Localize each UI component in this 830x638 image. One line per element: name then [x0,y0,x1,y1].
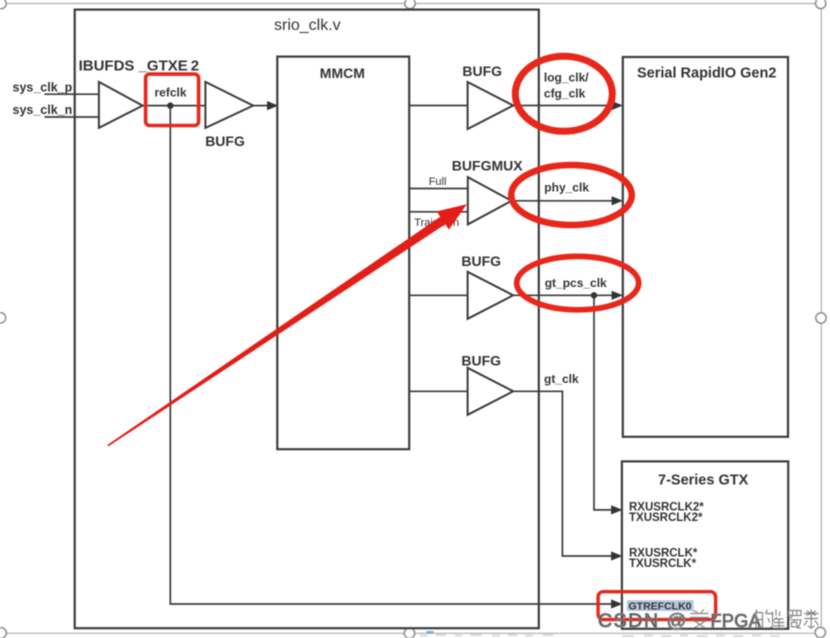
wire ibufds output to BUFG [143,105,206,107]
svg-text:CSDN @: CSDN @ [598,610,688,632]
svg-text:BUFG: BUFG [461,352,501,368]
block MMCM [277,57,409,450]
annotation red box around GTREFCLK0 [598,592,716,620]
wire gt_pcs_clk down to GTX RXUSRCLK2* [594,295,612,510]
svg-text:refclk: refclk [155,86,187,100]
selection handle bottom-middle [404,628,414,638]
svg-text:Full: Full [429,176,447,188]
watermark faint second row [420,635,780,636]
annotation red ellipse around log_clk/cfg_clk [515,56,612,131]
svg-text:MMCM: MMCM [320,65,365,81]
svg-text:gt_pcs_clk: gt_pcs_clk [545,276,607,290]
selection handle top-right [816,0,826,9]
svg-text:Serial RapidIO Gen2: Serial RapidIO Gen2 [637,66,776,82]
svg-text:gt_clk: gt_clk [544,372,579,386]
wire MMCM to BUFG top [409,105,467,107]
buffer IBUFDS_GTXE2 [99,82,143,128]
svg-text:FPGA: FPGA [711,611,762,631]
watermark CSDN text [598,610,761,632]
arrowhead gt_pcs_clk into GTX [611,505,622,514]
module box srio_clk.v [75,10,539,629]
wire BUFG to MMCM [253,105,269,107]
annotation red ellipse around phy_clk [511,165,632,225]
svg-text:BUFG: BUFG [462,63,502,79]
highlight GTREFCLK0 [627,600,694,611]
wire refclk down and right to GTREFCLK0 [170,106,612,604]
selection handle bottom-left [0,628,6,638]
wire gt_pcs_clk [513,294,612,296]
buffer BUFG (input side) [205,82,253,128]
svg-text:TXUSRCLK2*: TXUSRCLK2* [629,512,703,524]
wire MMCM to BUFG third [409,294,467,296]
svg-text:cfg_clk: cfg_clk [544,87,586,101]
watermark CJK glyph ai [690,610,709,629]
block Serial RapidIO Gen2 [623,57,788,437]
svg-text:BUFG: BUFG [205,133,245,149]
svg-text:srio_clk.v: srio_clk.v [274,17,341,34]
arrowhead refclk into GTREFCLK0 [611,599,622,608]
svg-text:7-Series GTX: 7-Series GTX [658,473,749,489]
wire sys_clk_n [45,116,100,118]
svg-text:TXUSRCLK*: TXUSRCLK* [629,558,697,570]
watermark CJK glyph de [755,610,773,628]
annotation red ellipse around gt_pcs_clk [517,256,639,309]
svg-text:BUFGMUX: BUFGMUX [452,158,523,174]
watermark blue mark [427,631,434,634]
svg-text:log_clk/: log_clk/ [544,71,589,85]
wire phy_clk [512,200,613,202]
buffer BUFG top (log_clk) [468,82,514,129]
buffer BUFG fourth (gt_clk) [468,368,514,415]
arrowhead phy_clk into Serial RapidIO [612,196,623,205]
svg-text:IBUFDS _GTXE 2: IBUFDS _GTXE 2 [79,57,200,74]
wire log_clk/cfg_clk [513,105,612,107]
node refclk junction [167,102,173,108]
annotation red box around refclk [146,74,199,125]
block 7-Series GTX [622,461,788,628]
arrowhead log_clk into Serial RapidIO [612,101,623,110]
buffer BUFG third (gt_pcs_clk) [468,272,514,319]
buffer BUFGMUX [468,177,512,224]
selection handle top-left [0,0,6,9]
svg-text:sys_clk_p: sys_clk_p [13,80,73,94]
svg-text:BUFG: BUFG [461,253,501,269]
wire gt_clk horizontal [513,391,612,556]
selection handle left-middle [0,313,6,323]
watermark CJK glyph cui [773,610,786,629]
svg-text:phy_clk: phy_clk [544,181,589,195]
arrowhead gt_pcs_clk into Serial RapidIO [612,291,623,300]
svg-text:sys_clk_n: sys_clk_n [13,103,73,117]
watermark CJK glyph shu [789,611,802,629]
selection handle bottom-right [815,627,825,637]
wire sys_clk_p [45,93,100,95]
wire MMCM to BUFG fourth [409,390,467,392]
annotation red arrow to BUFGMUX [107,204,467,446]
wire Full [409,188,468,190]
selection handle right-middle [816,313,826,323]
arrowhead into MMCM [267,101,278,110]
node gt_pcs_clk junction [591,292,597,298]
arrowhead gt_clk into GTX RXUSRCLK* [611,551,622,560]
watermark CJK glyph shu2 [804,610,819,629]
selection handle top-middle [405,0,415,9]
wire Traindwn [409,211,468,213]
